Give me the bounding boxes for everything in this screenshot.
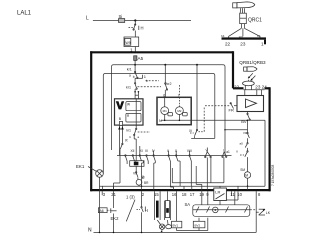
svg-text:b: b — [130, 135, 132, 139]
svg-text:M: M — [245, 173, 248, 177]
svg-text:A6: A6 — [100, 209, 104, 213]
svg-text:cm: cm — [239, 34, 244, 38]
svg-text:SA: SA — [185, 202, 191, 207]
svg-text:M1: M1 — [163, 109, 167, 113]
svg-text:kr1: kr1 — [127, 129, 132, 133]
svg-text:I: I — [223, 148, 224, 152]
svg-text:II: II — [236, 150, 238, 154]
svg-text:BR: BR — [144, 181, 149, 185]
svg-text:7 153a03/0503: 7 153a03/0503 — [271, 165, 275, 186]
svg-text:kr1: kr1 — [126, 86, 131, 90]
svg-text:H: H — [145, 208, 148, 213]
svg-text:6: 6 — [163, 94, 165, 98]
svg-text:V: V — [206, 148, 209, 152]
svg-text:H: H — [141, 25, 144, 30]
svg-text:23: 23 — [240, 41, 246, 46]
svg-text:EK2: EK2 — [111, 216, 120, 221]
svg-text:9: 9 — [206, 192, 209, 197]
svg-text:IX: IX — [125, 139, 129, 143]
svg-text:a1: a1 — [226, 150, 230, 154]
svg-text:IV: IV — [152, 149, 156, 153]
svg-text:3: 3 — [103, 192, 106, 197]
svg-text:11: 11 — [230, 192, 235, 197]
svg-text:N: N — [88, 228, 92, 234]
svg-text:b: b — [133, 75, 135, 79]
svg-text:kr1: kr1 — [127, 68, 132, 72]
svg-text:22: 22 — [225, 41, 231, 46]
svg-text:22: 22 — [234, 85, 240, 90]
svg-text:19: 19 — [199, 192, 204, 197]
svg-text:a: a — [138, 135, 140, 139]
svg-text:VI: VI — [142, 176, 145, 180]
svg-text:7: 7 — [178, 94, 180, 98]
svg-text:W9: W9 — [126, 41, 131, 45]
svg-text:SM: SM — [240, 168, 245, 172]
svg-text:EK1: EK1 — [76, 164, 85, 169]
svg-text:LR: LR — [215, 190, 220, 195]
svg-text:L: L — [86, 16, 89, 22]
svg-text:10: 10 — [237, 192, 242, 197]
svg-text:8: 8 — [258, 192, 261, 197]
svg-text:BV2: BV2 — [195, 224, 201, 228]
svg-text:XI: XI — [140, 149, 143, 153]
svg-text:BV: BV — [241, 119, 247, 124]
svg-text:18: 18 — [182, 192, 187, 197]
svg-text:16: 16 — [172, 192, 177, 197]
svg-text:III: III — [145, 149, 148, 153]
svg-text:17: 17 — [190, 192, 195, 197]
svg-text:A5: A5 — [138, 56, 144, 61]
svg-text:R: R — [127, 114, 130, 118]
svg-text:a0: a0 — [240, 142, 244, 146]
svg-text:b4: b4 — [221, 34, 225, 38]
svg-text:W: W — [127, 102, 130, 106]
svg-text:2: 2 — [142, 192, 145, 197]
svg-text:23 24: 23 24 — [255, 85, 267, 90]
svg-text:QRB1/QRB3: QRB1/QRB3 — [239, 60, 266, 65]
svg-text:X: X — [175, 149, 178, 153]
svg-text:LK: LK — [266, 211, 271, 215]
svg-text:FR: FR — [229, 107, 234, 112]
svg-text:LAL1: LAL1 — [17, 11, 32, 17]
svg-text:Si: Si — [119, 14, 123, 19]
svg-text:kr2: kr2 — [167, 82, 172, 86]
svg-text:1 (3): 1 (3) — [126, 195, 135, 200]
svg-text:BV1: BV1 — [173, 224, 179, 228]
svg-text:VII: VII — [133, 172, 137, 176]
svg-text:b4: b4 — [257, 34, 261, 38]
svg-text:21: 21 — [111, 192, 116, 197]
svg-text:15: 15 — [154, 192, 159, 197]
svg-text:II: II — [167, 149, 169, 153]
svg-text:M2: M2 — [177, 109, 181, 113]
svg-text:a: a — [129, 74, 131, 78]
svg-text:N: N — [159, 119, 162, 123]
svg-text:QRC1: QRC1 — [248, 18, 262, 24]
svg-text:B: B — [119, 117, 122, 121]
svg-text:XII: XII — [131, 149, 135, 153]
svg-text:b: b — [146, 79, 148, 83]
svg-text:1: 1 — [261, 41, 264, 46]
svg-text:XI: XI — [189, 129, 192, 133]
svg-text:VIII: VIII — [243, 131, 247, 135]
svg-text:1: 1 — [130, 48, 133, 53]
svg-text:VIII: VIII — [187, 149, 192, 153]
